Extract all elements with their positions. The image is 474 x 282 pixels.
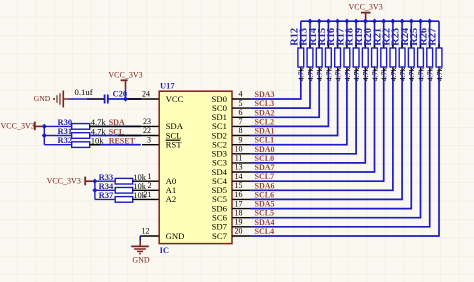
svg-text:22: 22	[143, 126, 151, 135]
wire rail to R20	[374, 21, 376, 48]
wire vcc vertical to R33-R37	[94, 181, 96, 199]
svg-text:SDA2: SDA2	[255, 108, 275, 117]
svg-text:SCL5: SCL5	[255, 209, 275, 218]
svg-text:4: 4	[239, 90, 243, 99]
svg-text:GND: GND	[166, 231, 185, 241]
resistor R30	[72, 124, 90, 130]
svg-text:R37: R37	[99, 190, 114, 200]
resistor R19	[362, 48, 368, 67]
svg-text:8: 8	[239, 126, 243, 135]
junction R30 row	[42, 124, 47, 129]
svg-text:20: 20	[235, 227, 243, 236]
pin 13	[232, 171, 250, 173]
pin 20	[232, 235, 250, 237]
svg-text:3: 3	[147, 135, 151, 144]
wire rail to R23	[401, 21, 403, 48]
svg-text:U17: U17	[160, 81, 175, 91]
wire rail to R22	[392, 21, 394, 48]
svg-text:SDA6: SDA6	[255, 181, 275, 190]
svg-text:SCL0: SCL0	[255, 154, 275, 163]
svg-text:18: 18	[235, 208, 243, 217]
resistor R26	[427, 48, 433, 67]
wire pin 15 to R22	[250, 71, 393, 191]
svg-text:4.7k: 4.7k	[297, 67, 306, 81]
svg-text:4.7k: 4.7k	[435, 67, 444, 81]
pin 2	[133, 189, 160, 191]
wire VCC rail (top)	[301, 20, 439, 22]
svg-text:0.1uf: 0.1uf	[75, 87, 93, 97]
wire rail to R15	[327, 21, 329, 48]
svg-text:16: 16	[235, 190, 243, 199]
svg-text:4.7k: 4.7k	[343, 67, 352, 81]
wire pin12 to ground	[139, 236, 141, 241]
RST overbar	[166, 139, 181, 141]
svg-text:SC7: SC7	[212, 231, 228, 241]
wire pin 7 to R15	[250, 71, 328, 127]
wire vcc to R37	[95, 198, 115, 200]
wire vcc to R30	[44, 125, 71, 127]
svg-text:4.7k: 4.7k	[361, 67, 370, 81]
svg-text:2: 2	[148, 181, 152, 190]
svg-text:15: 15	[235, 181, 243, 190]
svg-text:SCL1: SCL1	[255, 136, 275, 145]
svg-text:10: 10	[235, 145, 243, 154]
svg-text:R32: R32	[58, 135, 73, 145]
resistor R31	[72, 133, 90, 139]
wire pin 20 to R27	[250, 71, 439, 237]
wire vcc vertical to R30-R32	[43, 126, 45, 144]
wire rail to R18	[355, 21, 357, 48]
svg-text:5: 5	[239, 99, 243, 108]
junction rail col 13	[307, 19, 312, 24]
svg-text:SDA0: SDA0	[255, 145, 275, 154]
resistor R13	[307, 48, 313, 67]
pin 19	[232, 226, 250, 228]
resistor R20	[372, 48, 378, 67]
op chip U17 body	[159, 91, 232, 243]
pin 17	[232, 208, 250, 210]
wire R30 to chip	[90, 125, 141, 127]
wire pin 19 to R26	[250, 71, 429, 227]
wire pin 5 to R13	[250, 71, 310, 109]
svg-text:SCL3: SCL3	[255, 99, 275, 108]
svg-text:6: 6	[239, 108, 243, 117]
svg-text:SCL7: SCL7	[255, 172, 275, 181]
resistor R21	[381, 48, 387, 67]
wire rail to R12	[300, 21, 302, 48]
pin 11	[232, 162, 250, 164]
pin 4	[232, 98, 250, 100]
pin C20 left	[87, 98, 104, 100]
resistor R16	[335, 48, 341, 67]
svg-text:RST: RST	[166, 140, 183, 150]
svg-text:SDA4: SDA4	[255, 218, 275, 227]
svg-text:13: 13	[235, 163, 243, 172]
pin 24	[127, 98, 159, 100]
svg-text:12: 12	[142, 227, 150, 236]
svg-text:4.7k: 4.7k	[352, 67, 361, 81]
wire C20 to pin24	[108, 98, 140, 100]
svg-text:A2: A2	[166, 194, 177, 204]
pin 5	[232, 107, 250, 109]
svg-text:GND: GND	[132, 256, 150, 265]
junction rail col 16	[335, 19, 340, 24]
wire pin 13 to R20	[250, 71, 374, 173]
svg-text:23: 23	[143, 117, 151, 126]
svg-text:SCL6: SCL6	[255, 190, 275, 199]
pin 8	[232, 135, 250, 137]
svg-text:VCC: VCC	[166, 94, 184, 104]
wire R31 to chip	[90, 135, 141, 137]
pin 3	[142, 144, 159, 146]
svg-text:11: 11	[235, 154, 243, 163]
pin 9	[232, 144, 250, 146]
pin 12	[140, 235, 159, 237]
svg-text:21: 21	[144, 190, 152, 199]
wire rail to R19	[364, 21, 366, 48]
resistor R34	[115, 188, 133, 194]
wire pin 18 to R25	[250, 71, 420, 218]
junction R33 row	[92, 179, 97, 184]
resistor R32	[72, 142, 90, 148]
wire pin 14 to R21	[250, 71, 383, 182]
wire rail to R27	[438, 21, 440, 48]
svg-text:SCL2: SCL2	[255, 117, 275, 126]
resistor R22	[390, 48, 396, 67]
svg-text:4.7k: 4.7k	[334, 67, 343, 81]
wire rail to R25	[420, 21, 422, 48]
svg-text:4.7k: 4.7k	[380, 67, 389, 81]
wire pin 8 to R16	[250, 71, 337, 136]
resistor R15	[326, 48, 332, 67]
wire R32 to chip	[90, 144, 141, 146]
junction rail col 18	[354, 19, 359, 24]
junction rail col 24	[409, 19, 414, 24]
pin 1	[133, 180, 160, 182]
svg-text:4.7k: 4.7k	[370, 67, 379, 81]
svg-text:GND: GND	[34, 94, 51, 103]
wire vcc to R32	[44, 144, 71, 146]
wire rail to R26	[429, 21, 431, 48]
resistor R14	[316, 48, 322, 67]
wire pin 9 to R17	[250, 71, 347, 145]
svg-text:4.7k: 4.7k	[389, 67, 398, 81]
wire pin 10 to R18	[250, 71, 356, 154]
junction rail col 20	[372, 19, 377, 24]
svg-text:VCC_3V3: VCC_3V3	[1, 122, 35, 131]
resistor R17	[344, 48, 350, 67]
junction rail col 14	[317, 19, 322, 24]
wire rail to R21	[383, 21, 385, 48]
svg-text:IC: IC	[160, 245, 169, 255]
resistor R25	[418, 48, 424, 67]
junction rail col 15	[326, 19, 331, 24]
svg-text:4.7k: 4.7k	[324, 67, 333, 81]
svg-text:VCC_3V3: VCC_3V3	[348, 2, 382, 11]
svg-text:SDA3: SDA3	[255, 90, 275, 99]
svg-text:17: 17	[235, 199, 243, 208]
svg-text:SDA1: SDA1	[255, 127, 275, 136]
capacitor C20	[105, 95, 108, 104]
wire rail to R17	[346, 21, 348, 48]
pin 14	[232, 180, 250, 182]
svg-text:VCC_3V3: VCC_3V3	[47, 177, 81, 186]
junction rail col 23	[400, 19, 405, 24]
wire vcc to R34	[95, 189, 115, 191]
junction rail col 21	[381, 19, 386, 24]
pin 15	[232, 189, 250, 191]
junction rail col 26	[427, 19, 432, 24]
resistor R23	[399, 48, 405, 67]
wire gnd to C20	[69, 98, 105, 100]
resistor R18	[353, 48, 359, 67]
junction at pin24 net	[123, 96, 128, 101]
svg-text:7: 7	[239, 117, 243, 126]
svg-text:4.7k: 4.7k	[315, 67, 324, 81]
ground stem	[139, 241, 141, 247]
wire vcc to R31	[44, 135, 71, 137]
resistor R24	[408, 48, 414, 67]
svg-text:19: 19	[235, 218, 243, 227]
svg-text:VCC_3V3: VCC_3V3	[108, 71, 142, 80]
resistor R27	[436, 48, 442, 67]
wire pin 4 to R12	[250, 71, 300, 100]
pin 23	[90, 125, 160, 127]
svg-text:4.7k: 4.7k	[306, 67, 315, 81]
svg-text:SDA7: SDA7	[255, 163, 275, 172]
svg-text:24: 24	[142, 90, 150, 99]
pin 18	[232, 217, 250, 219]
pin 6	[232, 116, 250, 118]
junction rail col 17	[344, 19, 349, 24]
svg-text:4.7k: 4.7k	[416, 67, 425, 81]
svg-text:SCL4: SCL4	[255, 227, 275, 236]
svg-text:R27: R27	[428, 28, 439, 46]
svg-text:1: 1	[148, 172, 152, 181]
svg-text:14: 14	[235, 172, 243, 181]
wire pin 17 to R24	[250, 71, 411, 209]
resistor R12	[298, 48, 304, 67]
junction R34 row	[92, 188, 97, 193]
resistor R37	[115, 197, 133, 203]
junction rail col 19	[363, 19, 368, 24]
wire pin 11 to R19	[250, 71, 365, 163]
svg-text:4.7k: 4.7k	[407, 67, 416, 81]
wire rail to R24	[410, 21, 412, 48]
junction R31 row	[42, 133, 47, 138]
wire rail to R13	[309, 21, 311, 48]
wire rail to R16	[337, 21, 339, 48]
wire pin 16 to R23	[250, 71, 402, 200]
wire rail to R14	[318, 21, 320, 48]
ground symbol GND (bottom)	[131, 246, 149, 253]
pin 16	[232, 198, 250, 200]
pin 21	[133, 198, 160, 200]
pin 7	[232, 125, 250, 127]
svg-text:SDA5: SDA5	[255, 200, 275, 209]
junction rail col 25	[418, 19, 423, 24]
svg-text:4.7k: 4.7k	[398, 67, 407, 81]
ground symbol GND (upper left)	[54, 91, 63, 108]
junction rail vcc stem	[363, 19, 368, 24]
pin 22	[118, 135, 159, 137]
wire vcc stem to junction	[125, 89, 127, 99]
wire pin 6 to R14	[250, 71, 319, 118]
wire gnd stub	[64, 98, 69, 100]
junction rail col 22	[390, 19, 395, 24]
svg-text:9: 9	[239, 135, 243, 144]
resistor R33	[115, 178, 133, 184]
wire vcc to R33	[95, 180, 115, 182]
pin 10	[232, 153, 250, 155]
svg-text:4.7k: 4.7k	[426, 67, 435, 81]
